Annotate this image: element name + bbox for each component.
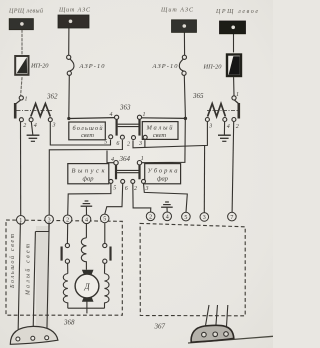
svg-text:4: 4 xyxy=(166,215,169,221)
svg-text:5: 5 xyxy=(103,217,106,223)
svg-text:АЗР-10: АЗР-10 xyxy=(152,63,179,70)
svg-text:5: 5 xyxy=(113,186,116,192)
svg-text:1: 1 xyxy=(25,97,28,103)
svg-text:362: 362 xyxy=(46,93,58,101)
svg-text:2: 2 xyxy=(66,218,69,224)
svg-text:5: 5 xyxy=(104,140,107,146)
svg-text:4: 4 xyxy=(111,156,114,163)
svg-text:4: 4 xyxy=(34,122,37,129)
svg-text:АЗР-10: АЗР-10 xyxy=(79,63,106,70)
svg-text:3: 3 xyxy=(145,186,149,192)
svg-text:ИП-20: ИП-20 xyxy=(30,62,49,69)
svg-text:364: 364 xyxy=(119,155,131,163)
svg-text:3: 3 xyxy=(138,141,142,147)
svg-text:7: 7 xyxy=(230,215,233,221)
svg-text:2: 2 xyxy=(127,142,130,148)
svg-text:4: 4 xyxy=(85,218,88,224)
svg-text:фар: фар xyxy=(82,175,94,182)
svg-text:3: 3 xyxy=(203,215,206,221)
svg-text:4: 4 xyxy=(227,123,230,130)
svg-text:5: 5 xyxy=(184,215,187,221)
svg-text:6: 6 xyxy=(125,186,128,192)
svg-text:2: 2 xyxy=(23,123,26,129)
svg-text:2: 2 xyxy=(134,186,137,192)
svg-text:6: 6 xyxy=(116,141,119,147)
svg-text:Щит АЗС: Щит АЗС xyxy=(160,8,194,14)
svg-text:свет: свет xyxy=(153,132,167,139)
svg-text:фар: фар xyxy=(157,175,169,182)
svg-text:1: 1 xyxy=(236,92,239,98)
svg-text:Д: Д xyxy=(83,282,90,291)
svg-text:365: 365 xyxy=(192,92,204,100)
svg-text:1: 1 xyxy=(143,112,146,118)
svg-text:Большой свет: Большой свет xyxy=(9,234,16,289)
svg-text:Малый: Малый xyxy=(146,125,174,132)
svg-text:3: 3 xyxy=(208,124,212,130)
svg-text:1: 1 xyxy=(19,218,22,224)
svg-text:ЦРЩ левый: ЦРЩ левый xyxy=(8,7,43,14)
svg-text:3: 3 xyxy=(52,123,56,129)
svg-text:свет: свет xyxy=(81,132,94,139)
svg-text:2: 2 xyxy=(149,215,152,221)
svg-text:4: 4 xyxy=(110,111,113,118)
svg-text:368: 368 xyxy=(63,319,75,327)
svg-text:3: 3 xyxy=(48,218,51,224)
svg-text:1: 1 xyxy=(141,156,144,162)
svg-text:Малый свет: Малый свет xyxy=(24,244,31,296)
svg-text:363: 363 xyxy=(119,104,131,112)
svg-text:2: 2 xyxy=(236,124,239,130)
svg-text:ИП-20: ИП-20 xyxy=(203,63,223,70)
svg-text:367: 367 xyxy=(154,323,166,331)
svg-text:Щит АЗС: Щит АЗС xyxy=(58,7,91,13)
